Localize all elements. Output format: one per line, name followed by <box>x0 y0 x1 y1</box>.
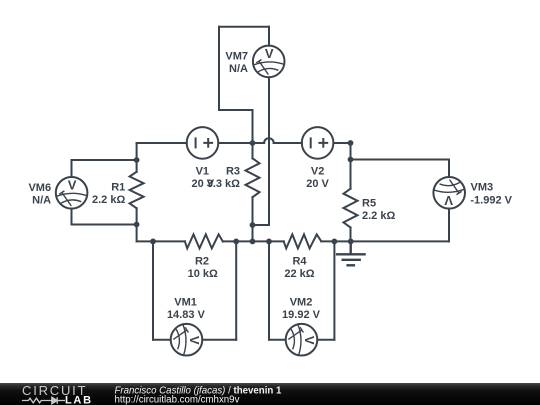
node R3 bottom / VM7 <box>250 222 256 228</box>
svg-text:VM1: VM1 <box>174 296 197 308</box>
wire bottom rail left of R2 <box>137 240 185 242</box>
node R3 rail <box>250 239 256 245</box>
wire VM1 right leg <box>235 241 237 339</box>
node VM3 branch <box>348 157 354 163</box>
wire R1 bottom lead to rail <box>136 208 138 241</box>
voltage source V1 <box>187 127 219 159</box>
voltmeter VM2 <box>286 324 318 356</box>
node ground / R5 <box>348 239 354 245</box>
svg-text:R1: R1 <box>111 181 125 193</box>
svg-text:LAB: LAB <box>65 394 93 405</box>
node VM1 left <box>150 239 156 245</box>
wire VM7 bottom vertical through hop <box>268 77 270 225</box>
wire VM7 loop drop to node <box>252 110 254 143</box>
svg-text:2.2 kΩ: 2.2 kΩ <box>92 194 125 206</box>
wire VM1 left leg <box>152 241 154 339</box>
wire VM3 top lead <box>448 160 450 177</box>
wire bottom rail right of R4 <box>321 240 350 242</box>
wire VM1 right horizontal <box>202 339 236 341</box>
svg-text:R5: R5 <box>362 198 376 210</box>
svg-text:R4: R4 <box>292 256 307 268</box>
voltmeter VM6 <box>56 177 88 209</box>
wire V2 right lead <box>334 142 351 144</box>
svg-text:http://circuitlab.com/cmhxn9v: http://circuitlab.com/cmhxn9v <box>115 395 240 405</box>
node R1 bottom / VM6 <box>134 222 140 228</box>
svg-text:VM7: VM7 <box>225 50 248 62</box>
ground symbol <box>337 241 365 265</box>
svg-text:20 V: 20 V <box>306 178 329 190</box>
resistor R4 body <box>284 234 322 248</box>
wire top rail hop to V2 <box>274 142 302 144</box>
wire VM7 loop left vertical <box>218 27 220 110</box>
svg-text:R3: R3 <box>226 166 240 178</box>
node VM2 left <box>266 239 272 245</box>
wire R3 bottom lead to rail <box>252 197 254 241</box>
svg-text:14.83 V: 14.83 V <box>167 309 206 321</box>
wire branch to VM3 top <box>351 159 450 161</box>
wire VM6 bottom horizontal <box>72 224 137 226</box>
wire VM7 to R3 bottom junction <box>253 224 270 226</box>
resistor R5 body <box>344 189 358 228</box>
node VM1 right <box>233 239 239 245</box>
svg-text:R2: R2 <box>195 256 209 268</box>
wire R5 bottom lead <box>350 228 352 242</box>
voltage source V2 <box>302 127 334 159</box>
node junction dots <box>134 140 354 244</box>
node VM2 right <box>332 239 338 245</box>
footer logo resistor-diode squiggle <box>22 397 65 404</box>
wire VM2 right leg <box>333 241 335 339</box>
svg-text:VM3: VM3 <box>471 181 494 193</box>
svg-text:VM2: VM2 <box>290 296 313 308</box>
wire VM2 right horizontal <box>317 339 334 341</box>
svg-text:N/A: N/A <box>32 194 51 206</box>
resistor R1 body <box>130 172 144 208</box>
wire VM1 left horizontal <box>153 339 171 341</box>
wire VM2 left horizontal <box>269 339 286 341</box>
wire VM7 loop lower horizontal <box>219 109 253 111</box>
wire R3 top lead <box>252 143 254 158</box>
wire VM6 bottom lead <box>71 209 73 225</box>
resistor R3 body <box>246 158 260 197</box>
svg-text:-1.992 V: -1.992 V <box>470 195 512 207</box>
svg-text:3.3 kΩ: 3.3 kΩ <box>207 178 240 190</box>
wire bottom rail right segment to VM3 <box>351 240 449 242</box>
wire V2 node down to R5 top <box>350 143 352 189</box>
voltmeter VM1 <box>171 324 203 356</box>
svg-text:10 kΩ: 10 kΩ <box>188 268 218 280</box>
wire VM3 bottom lead <box>448 209 450 242</box>
wire VM7 top lead <box>268 27 270 46</box>
svg-text:V2: V2 <box>311 166 324 178</box>
voltmeter VM7 <box>253 46 285 78</box>
wire R1 top lead from rail corner <box>136 143 138 172</box>
svg-text:22 kΩ: 22 kΩ <box>284 268 314 280</box>
svg-text:2.2 kΩ: 2.2 kΩ <box>362 210 395 222</box>
node R3 top rail <box>250 140 256 146</box>
wire hop over VM7 vertical <box>264 138 274 143</box>
svg-text:19.92 V: 19.92 V <box>282 309 321 321</box>
wire VM6 top horizontal <box>72 159 137 161</box>
wire VM2 left leg <box>268 241 270 339</box>
node V2 right <box>348 140 354 146</box>
wire VM6 top lead <box>71 160 73 177</box>
footer bar <box>0 383 540 405</box>
svg-text:N/A: N/A <box>229 63 248 75</box>
node R1 top / VM6 <box>134 157 140 163</box>
wire top rail left segment <box>137 142 187 144</box>
svg-text:V1: V1 <box>196 166 209 178</box>
wire top rail V1 to R3 node <box>218 142 264 144</box>
resistor R2 body <box>185 234 223 248</box>
svg-text:VM6: VM6 <box>28 182 51 194</box>
wire bottom rail between R2 and R4 <box>223 240 284 242</box>
wire VM7 loop top horizontal <box>219 26 269 28</box>
voltmeter VM3 <box>433 177 465 209</box>
